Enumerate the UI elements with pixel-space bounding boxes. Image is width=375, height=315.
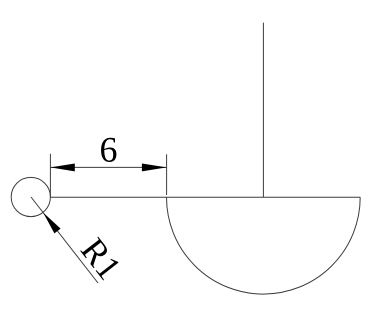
value label R1 — [80, 236, 121, 280]
semicircle arc — [167, 197, 361, 294]
arrowhead right of dimension 6 — [142, 163, 167, 171]
wire horizontal centerline — [50, 196, 360, 198]
circle R1 — [11, 177, 50, 216]
wire vertical centerline — [262, 23, 264, 198]
wire leader R1 — [31, 197, 98, 283]
value label 6 — [101, 138, 116, 162]
wire dimension line 6 — [50, 166, 166, 168]
wire extension line right — [166, 154, 168, 195]
arrowhead left of dimension 6 — [50, 163, 74, 171]
wire extension line left — [49, 154, 51, 197]
arrowhead of leader R1 — [43, 213, 61, 234]
